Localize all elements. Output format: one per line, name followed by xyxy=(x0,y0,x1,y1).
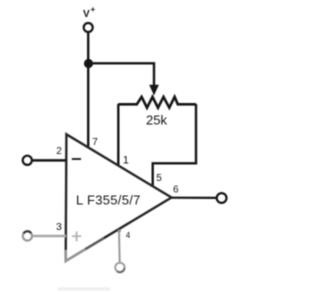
wire pin 4 xyxy=(118,230,121,263)
svg-text:7: 7 xyxy=(92,137,98,148)
svg-text:+: + xyxy=(91,5,96,14)
wire junction to wiper arrow xyxy=(89,63,155,86)
svg-text:6: 6 xyxy=(173,185,179,196)
wire junction down to pin 7 xyxy=(87,64,89,149)
svg-text:V: V xyxy=(83,9,90,20)
wire V+ down to junction xyxy=(87,33,89,64)
wiper arrowhead xyxy=(149,85,159,96)
faded lower-left triangle edges xyxy=(66,249,86,261)
terminal pin 2 xyxy=(23,156,32,165)
bottom smudge xyxy=(58,288,110,291)
terminal pin 3 xyxy=(23,231,32,240)
non-inverting input plus xyxy=(72,231,81,241)
svg-text:2: 2 xyxy=(56,146,62,157)
wire output pin 6 xyxy=(172,197,217,199)
wire pin 2 xyxy=(33,159,66,162)
svg-text:5: 5 xyxy=(156,173,162,184)
op-amp U1 triangle xyxy=(66,134,172,261)
terminal V+ xyxy=(84,23,93,32)
pin 4 junction dot xyxy=(117,229,120,232)
resistor 25k xyxy=(118,97,196,108)
svg-text:L F355/5/7: L F355/5/7 xyxy=(76,193,141,208)
svg-text:1: 1 xyxy=(123,155,129,167)
inverting input minus xyxy=(72,158,81,160)
wire resistor left to pin 1 xyxy=(117,104,119,166)
wire pin 3 xyxy=(33,235,66,238)
svg-text:25k: 25k xyxy=(146,113,167,128)
svg-text:4: 4 xyxy=(126,231,131,240)
junction dot xyxy=(84,59,93,68)
terminal pin 4 xyxy=(115,263,124,272)
wire resistor right to pin 5 xyxy=(153,104,196,187)
terminal pin 6 xyxy=(217,193,227,203)
svg-text:3: 3 xyxy=(56,221,62,233)
